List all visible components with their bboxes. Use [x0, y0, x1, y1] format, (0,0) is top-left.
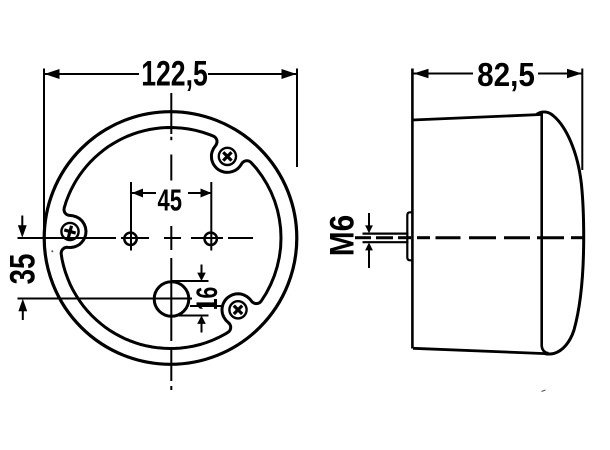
horizontal centerline left view	[18, 237, 254, 239]
big hole d16	[154, 282, 189, 317]
vertical centerline left view	[170, 93, 172, 390]
svg-text:35: 35	[2, 254, 42, 285]
lens seam line	[542, 113, 549, 354]
screw left	[61, 223, 78, 240]
small hole right of 45 pair	[205, 233, 217, 245]
arrowhead 82,5 right	[567, 69, 582, 79]
svg-text:82,5: 82,5	[477, 57, 535, 94]
arrowhead M6 bottom	[365, 243, 373, 251]
inner mounting plate contour with screw notches	[61, 128, 281, 349]
screw bottom-right	[229, 301, 246, 318]
svg-text:45: 45	[158, 183, 183, 218]
svg-text:M6: M6	[323, 215, 361, 257]
small hole left of 45 pair	[124, 233, 136, 245]
arrowhead 122,5 left	[45, 69, 60, 79]
mounting boss	[407, 212, 412, 260]
lens outer curve	[537, 112, 584, 354]
scan speck	[51, 250, 53, 252]
svg-text:16: 16	[192, 287, 224, 311]
arrowhead 122,5 right	[282, 69, 297, 79]
dimension M6	[368, 213, 370, 226]
horizontal centerline right view	[355, 236, 583, 239]
dimension 35	[21, 216, 23, 227]
arrowhead 45 left	[132, 189, 143, 198]
dimension 16	[172, 265, 209, 333]
dimension 45	[131, 182, 212, 251]
short line to bottom-right screw	[190, 305, 221, 307]
horizontal line through d16 hole (35 dim reference)	[18, 298, 193, 300]
screw top-right	[219, 148, 236, 165]
arrowhead 35 top	[18, 225, 27, 238]
body bottom edge	[413, 348, 546, 353]
M6 stud bottom line	[363, 241, 409, 243]
arrowhead 82,5 left	[414, 69, 429, 79]
arrowhead M6 top	[365, 225, 373, 233]
arrowhead 16 bottom	[197, 316, 206, 324]
arrowhead 35 bottom	[18, 299, 27, 312]
body top edge	[413, 115, 542, 121]
svg-text:122,5: 122,5	[141, 54, 208, 93]
arrowhead 45 right	[201, 189, 212, 198]
dimension 82,5	[414, 69, 583, 171]
outer circle lamp rim	[44, 112, 297, 365]
scan speck	[542, 390, 546, 392]
M6 stud top line	[363, 233, 409, 235]
arrowhead 16 top	[197, 273, 206, 281]
dimension 122,5	[44, 69, 297, 241]
body left edge / extension line	[411, 69, 414, 349]
